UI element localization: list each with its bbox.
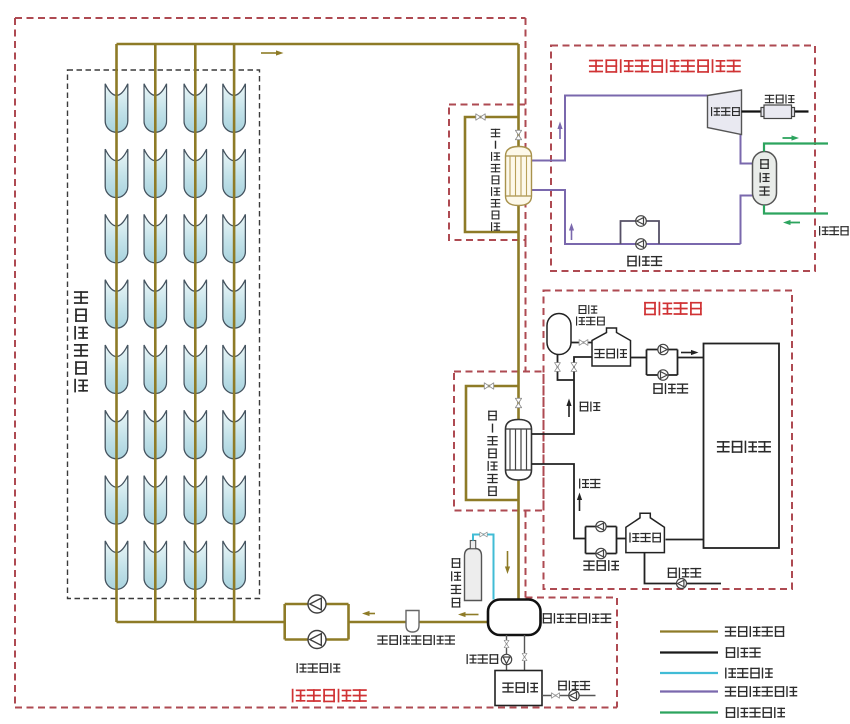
cold pump bypass xyxy=(586,527,617,554)
oil pump bypass loop xyxy=(285,604,349,640)
outer dashed border right segments xyxy=(525,18,527,598)
cold water arrow xyxy=(577,493,582,512)
label 工质泵 xyxy=(627,256,662,267)
hot water tank 热水罐 xyxy=(592,328,631,366)
oil system box top-right dashed edge xyxy=(526,598,618,708)
oil flow arrow down xyxy=(505,551,510,574)
injection pump 注油泵 xyxy=(569,690,579,700)
hot tank to pump line xyxy=(631,357,647,359)
label 储油罐 xyxy=(502,682,538,693)
label 导热油净化装置 xyxy=(377,635,455,645)
cooling water arrow out xyxy=(783,135,800,140)
solar collector trough array xyxy=(105,84,245,590)
valve hot riser xyxy=(571,363,577,372)
oil-organic working fluid heat exchanger xyxy=(506,147,532,206)
label 油—水换热器 xyxy=(487,411,497,496)
valve oil-organic bypass xyxy=(476,114,485,120)
working fluid pump P1 xyxy=(636,216,647,227)
makeup water line xyxy=(645,553,722,584)
cold pump to cold tank line xyxy=(617,538,626,540)
label 热水罐 xyxy=(594,349,627,359)
cold water tank 冷水罐 xyxy=(626,513,665,552)
bottom oil manifold xyxy=(117,621,285,624)
thermal oil pump P1 xyxy=(308,595,326,613)
working fluid pump P2 xyxy=(636,239,647,250)
hot water pump P1 xyxy=(658,344,668,354)
label 热水 xyxy=(580,402,601,412)
main oil down pipe xyxy=(517,44,520,600)
valve heater outlet xyxy=(579,339,588,345)
heating system dashed box xyxy=(544,291,793,590)
legend water line xyxy=(660,651,718,653)
oil line pump to expansion tank xyxy=(349,621,489,624)
title 有机朗肯循环发电系统 xyxy=(589,59,741,73)
heater to tank top line xyxy=(571,342,592,344)
valve above oil-water exchanger xyxy=(515,398,521,407)
exchanger tubes xyxy=(510,156,527,196)
label 加热器 xyxy=(576,317,605,326)
oil-water exchanger dashed box xyxy=(454,372,544,511)
bypass loop around oil-organic exchanger xyxy=(465,117,519,232)
legend 水管道 xyxy=(726,647,761,658)
title 导热油系统 xyxy=(292,689,367,703)
condenser 冷凝器 xyxy=(753,152,777,206)
label 冷水 xyxy=(579,479,600,489)
oil flow arrow left 1 xyxy=(458,612,479,617)
oil flow arrow left 2 xyxy=(362,611,375,616)
label 热水泵 xyxy=(653,383,688,394)
auxiliary heater 辅助加热器 xyxy=(547,314,571,355)
label 补水泵 xyxy=(668,568,701,578)
nitrogen bottle neck xyxy=(470,541,475,549)
oil purification device xyxy=(406,611,419,633)
expander to condenser line xyxy=(741,134,753,164)
valve oil-water bypass xyxy=(484,383,493,389)
label 冷水泵 xyxy=(583,560,619,571)
valve drain line xyxy=(522,653,527,660)
cold water pump P2 xyxy=(596,548,606,558)
thermal oil pump P2 xyxy=(308,631,326,649)
bypass loop around oil-water exchanger xyxy=(466,386,519,500)
outer thermal-oil region dashed border top xyxy=(15,17,526,19)
valve above oil-organic exchanger xyxy=(515,130,521,139)
cooling water outlet line xyxy=(764,144,828,152)
expander 膨胀机 xyxy=(708,90,742,135)
generator shaft xyxy=(742,110,809,112)
label 油—有机工质换热器 xyxy=(491,129,500,231)
legend 导热油管道 xyxy=(725,626,784,637)
hot water line exchanger to tank xyxy=(532,357,593,434)
oil injection line xyxy=(542,695,596,697)
outer dashed border bottom xyxy=(15,707,617,709)
hot water arrow xyxy=(566,399,571,418)
valve overflow line xyxy=(504,640,509,647)
legend 氮气管道 xyxy=(725,668,773,679)
legend nitrogen line xyxy=(660,672,718,674)
legend thermal oil line xyxy=(660,630,718,632)
makeup water pump xyxy=(677,579,687,589)
title 供热系统 xyxy=(644,302,702,316)
working fluid pump bypass xyxy=(621,221,660,244)
oil storage tank 储油罐 xyxy=(495,671,542,706)
nitrogen line xyxy=(473,535,494,600)
collector column pipes xyxy=(117,44,235,622)
users return line xyxy=(666,539,704,541)
label 溢流泵 xyxy=(467,654,499,664)
hot water pump P2 xyxy=(658,370,668,380)
oil-water exchanger tubes xyxy=(510,429,527,470)
legend working fluid line xyxy=(660,690,718,692)
label 导热油膨胀罐 xyxy=(543,613,611,623)
legend 有机工质管道 xyxy=(725,686,797,697)
solar field black dashed box xyxy=(68,70,260,599)
valve injection line xyxy=(551,693,559,698)
label 发电机 xyxy=(765,95,795,104)
expansion tank drain pipes xyxy=(507,635,525,671)
cooling water arrow in xyxy=(783,220,800,225)
exchanger tube sheets xyxy=(506,156,532,196)
hot water pump bypass xyxy=(647,350,678,376)
oil-organic exchanger dashed box xyxy=(449,105,526,241)
label 辅助 xyxy=(579,305,598,314)
working fluid up arrow 1 xyxy=(557,122,562,140)
oil-water exchanger tube sheets xyxy=(506,429,532,470)
outer dashed border left xyxy=(14,18,16,708)
label 冷却水 xyxy=(819,226,849,236)
working fluid line exchanger to expander xyxy=(532,96,708,161)
top oil manifold xyxy=(117,43,519,46)
label 冷凝器 xyxy=(759,159,769,196)
label 氮封系统 xyxy=(451,558,461,607)
overflow pump 溢流泵 xyxy=(501,654,511,664)
cold water line exchanger side xyxy=(532,464,586,539)
label 太阳能集热场 xyxy=(74,291,88,392)
label 导热油泵 xyxy=(297,663,341,673)
nitrogen bottle xyxy=(465,549,482,601)
heat users box 供热用户 xyxy=(704,344,780,549)
legend 冷却水管道 xyxy=(726,707,785,718)
valve heater branch xyxy=(554,363,560,372)
label 膨胀机 xyxy=(711,107,740,116)
condenser outlet line xyxy=(741,196,753,245)
legend cooling water line xyxy=(660,711,718,713)
valve nitrogen line xyxy=(480,532,487,537)
cold water pump P1 xyxy=(596,521,606,531)
cooling water inlet line xyxy=(764,205,828,214)
oil flow arrow top xyxy=(261,50,284,55)
working fluid return line xyxy=(532,190,741,244)
aux heater branch xyxy=(558,355,575,381)
supply arrow to users xyxy=(681,350,699,355)
generator 发电机 xyxy=(761,105,795,119)
label 注油泵 xyxy=(558,681,590,691)
label 供热用户 xyxy=(717,441,771,453)
ORC system dashed box xyxy=(551,46,815,272)
label 冷水罐 xyxy=(629,533,661,543)
hot pump to users line xyxy=(678,357,704,359)
working fluid up arrow 2 xyxy=(569,223,574,240)
expansion tank 导热油膨胀罐 xyxy=(488,600,541,636)
oil-water heat exchanger xyxy=(506,420,532,481)
